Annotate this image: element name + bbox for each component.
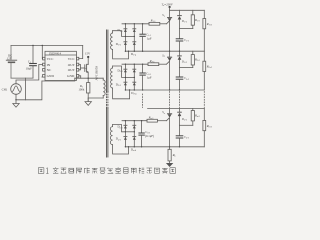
wire gate angle stage2 xyxy=(167,62,170,65)
wire ground net under IC xyxy=(42,78,75,81)
diode D1-5 snubber xyxy=(178,10,182,28)
svg-text:IN: IN xyxy=(47,63,51,67)
capacitor Cn-1 0.1uF xyxy=(139,121,144,147)
wire stage2 bottom rail xyxy=(125,89,204,91)
svg-text:15V: 15V xyxy=(85,52,91,56)
signal source CH1 xyxy=(11,84,22,95)
svg-text:Td=200V: Td=200V xyxy=(162,2,174,7)
resistor R2-5 gate xyxy=(148,63,167,66)
svg-text:VCC: VCC xyxy=(68,57,76,61)
rectifier bridge stage1 branch a xyxy=(124,24,126,51)
ground primary xyxy=(85,102,91,106)
rectifier bridge stage2 branch a xyxy=(124,64,126,90)
label R1-4 xyxy=(206,22,213,27)
transformer T1 secondary winding 1 xyxy=(111,31,113,50)
label AP11R05S vertical xyxy=(95,66,99,81)
diode Dn-5 snubber xyxy=(178,109,182,126)
label U=200V xyxy=(162,2,174,7)
resistor Rn-3 snubber xyxy=(191,109,194,126)
label 15V xyxy=(85,52,91,56)
diode D2-4 xyxy=(133,82,136,85)
svg-text:NC: NC xyxy=(47,68,52,72)
label Cn-1 0.1uF xyxy=(145,130,154,138)
transformer T1 secondary winding 2 xyxy=(111,66,113,88)
dotted continuation main rail xyxy=(169,92,171,108)
svg-text:GND: GND xyxy=(67,74,75,78)
bridge stage1 mid wire xyxy=(125,35,134,37)
wire secondary1 top lead xyxy=(113,31,126,37)
transistor Q1 MOSFET AP11R05S xyxy=(85,57,88,78)
diode D2-3 xyxy=(124,82,127,85)
wire stage1 bottom rail xyxy=(125,50,204,52)
svg-text:1μF: 1μF xyxy=(147,37,152,41)
wire secondaryN bottom detour xyxy=(113,145,129,154)
capacitor C2-3 snubber xyxy=(176,68,183,91)
labels bridge stageN xyxy=(116,125,137,153)
capacitor Cn-3 snubber xyxy=(176,125,183,147)
resistor Rn-5 gate xyxy=(147,119,167,122)
op-amp U1 gate driver IXDN414 xyxy=(45,51,76,80)
pin NC left xyxy=(43,69,45,72)
label Cn-3 xyxy=(184,135,190,140)
diode Dn-3 xyxy=(124,137,127,140)
thyristor S2 xyxy=(168,51,172,90)
dotted continuation cap column xyxy=(142,94,144,108)
battery label DC 12V xyxy=(7,53,13,60)
svg-text:(0.1μF): (0.1μF) xyxy=(145,134,154,138)
battery B1 DC 12V xyxy=(6,46,16,79)
resistor R1-4 balance xyxy=(203,10,206,51)
resistor R2-4 balance xyxy=(203,51,206,90)
wire gate angle stage1 xyxy=(167,21,170,24)
label C2-3 xyxy=(184,76,190,81)
label R1 value xyxy=(78,84,85,92)
label C1-1 1uF xyxy=(146,33,152,41)
svg-text:1μF: 1μF xyxy=(147,76,152,80)
diode Dn-4 xyxy=(133,137,136,140)
wire +12V to IC left VCC xyxy=(41,46,43,59)
diode D2-1 xyxy=(124,69,127,72)
svg-text:CH1: CH1 xyxy=(2,87,8,91)
wire CH1 to IN pin xyxy=(16,65,43,84)
label D2-5 xyxy=(181,60,188,65)
capacitor C1-3 snubber xyxy=(176,29,183,52)
pin VCC left xyxy=(43,57,45,60)
dotted continuation right column xyxy=(203,92,205,108)
wire snubber join stageN xyxy=(180,124,193,126)
svg-text:OUT: OUT xyxy=(68,68,76,72)
wire secondary2 top lead xyxy=(113,66,126,77)
transformer T1 secondary winding n xyxy=(110,125,112,145)
wire secondaryN top lead xyxy=(113,125,126,132)
wire +12V top rail xyxy=(11,45,83,47)
dotted continuation snubber column xyxy=(179,92,181,108)
wire gate bus stage2 xyxy=(122,63,148,65)
wire CH1 ground return xyxy=(15,94,17,103)
wire top rail xyxy=(169,7,171,10)
wire gate angle stageN xyxy=(167,118,170,121)
wire gate bus stage1 xyxy=(122,23,149,25)
resistor R1-3 snubber xyxy=(191,10,194,28)
thyristor S1 xyxy=(168,10,172,51)
pin IN left xyxy=(43,63,45,66)
wire gate bus stageN xyxy=(122,120,147,122)
wire secondary2 bottom detour xyxy=(113,88,130,99)
svg-text:VCC: VCC xyxy=(47,57,55,61)
wire snubber join stage2 xyxy=(180,67,193,69)
bridge stage2 mid wire xyxy=(125,76,134,78)
capacitor C1-1 1uF xyxy=(140,24,145,51)
label Rn-5 xyxy=(148,115,155,120)
pin OUT right bottom xyxy=(76,69,78,72)
label Rn-4 xyxy=(206,124,213,129)
diode Dn-1 xyxy=(124,125,127,128)
label CH1 xyxy=(2,87,8,91)
label R2-3 xyxy=(194,57,201,62)
svg-text:GND: GND xyxy=(47,74,55,78)
label Rn-3 xyxy=(194,113,201,118)
wire battery minus net xyxy=(11,77,33,79)
pin OUT right top xyxy=(76,63,78,66)
wire primary bottom xyxy=(88,97,103,99)
label D1-5 xyxy=(181,19,188,24)
label S1 xyxy=(162,13,165,18)
resistor RL load xyxy=(168,147,171,163)
label Dn-5 xyxy=(181,117,188,122)
svg-text:10μF: 10μF xyxy=(26,67,33,71)
caption figure title (drawn glyph blocks) xyxy=(38,167,175,174)
svg-text:IXDN414: IXDN414 xyxy=(49,51,61,55)
capacitor C2-1 1uF xyxy=(140,64,145,90)
label S2 xyxy=(162,54,166,59)
svg-text:12V: 12V xyxy=(7,56,13,60)
wire IC right GND to source rail xyxy=(79,76,81,78)
wire stageN bottom rail xyxy=(125,146,204,148)
pin GND left xyxy=(43,75,45,78)
diode D2-2 xyxy=(133,69,136,72)
node 15V supply xyxy=(87,56,89,58)
labels bridge stage2 xyxy=(116,69,137,96)
diode D1-1 xyxy=(124,29,127,32)
wire secondary1 bottom detour xyxy=(113,49,129,59)
bridge stageN mid wire xyxy=(125,131,134,133)
label R1-3 xyxy=(194,18,201,23)
ground CH1 xyxy=(13,104,19,108)
pin VCC right xyxy=(76,57,78,60)
resistor R1-5 gate xyxy=(149,22,167,25)
wire GND stub link xyxy=(41,76,44,78)
capacitor C1 10uF xyxy=(30,46,37,79)
ground load arrow xyxy=(166,163,173,167)
wire source rail xyxy=(75,77,103,79)
resistor R2-3 snubber xyxy=(191,51,194,67)
wire snubber join stage1 xyxy=(180,28,193,30)
pin GND right xyxy=(76,75,78,78)
label IXDN414 xyxy=(49,51,61,55)
label R2-4 xyxy=(206,65,213,70)
diode D1-2 xyxy=(133,29,136,32)
rectifier bridge stageN branch a xyxy=(124,121,126,147)
resistor Rn-4 balance xyxy=(203,109,206,147)
svg-text:100k: 100k xyxy=(78,88,85,92)
transformer T1 core xyxy=(107,30,108,157)
label C1-3 xyxy=(184,38,190,43)
wire battery minus drop xyxy=(25,78,27,100)
diode Dn-2 xyxy=(133,125,136,128)
wire +12V to IC right VCC xyxy=(79,46,83,59)
thyristor Sn xyxy=(168,109,172,147)
transformer T1 primary winding xyxy=(103,78,105,98)
diode D2-5 snubber xyxy=(178,51,182,67)
node 200V terminal xyxy=(169,6,171,8)
labels bridge stage1 xyxy=(116,28,137,56)
wire gate drive to Q1 xyxy=(81,67,85,69)
label RL xyxy=(172,153,177,158)
label R2-5 xyxy=(149,59,156,64)
label C1 10uF xyxy=(26,60,33,71)
wire OUT pins tie xyxy=(79,65,81,70)
label R1-5 xyxy=(150,19,157,24)
IC pin labels xyxy=(47,57,76,78)
wire stageN top rail xyxy=(148,108,205,110)
rectifier bridge stage1 branch b xyxy=(133,24,135,51)
diode D1-3 xyxy=(124,42,127,45)
diode D1-4 xyxy=(133,42,136,45)
label C2-1 1uF xyxy=(146,72,152,80)
resistor R1 gate bleed xyxy=(87,78,90,101)
svg-text:OUT: OUT xyxy=(68,63,76,67)
label Sn xyxy=(162,110,165,115)
rectifier bridge stageN branch b xyxy=(133,121,135,147)
rectifier bridge stage2 branch b xyxy=(133,64,135,90)
